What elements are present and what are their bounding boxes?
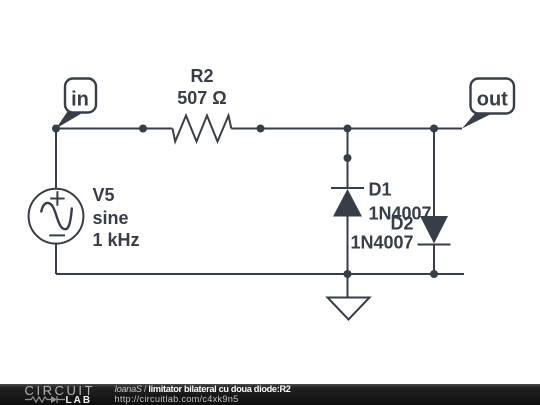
diode D2 triangle (pointing down) xyxy=(420,216,448,244)
svg-text:in: in xyxy=(71,88,89,110)
wire top rail left (node in to resistor) xyxy=(56,128,173,130)
wire D2 branch bottom xyxy=(433,245,435,275)
svg-text:http://circuitlab.com/c4xk9n5: http://circuitlab.com/c4xk9n5 xyxy=(115,394,239,404)
voltage source V5 circle xyxy=(29,189,84,244)
svg-text:out: out xyxy=(477,88,508,110)
wire D1 branch bottom xyxy=(347,217,349,275)
junction node at in xyxy=(52,125,60,133)
V5 plus sign xyxy=(50,191,64,205)
svg-text:507 Ω: 507 Ω xyxy=(177,88,226,108)
flag in pointer xyxy=(56,111,81,129)
junction node resistor left xyxy=(139,125,147,133)
wire D2 branch top xyxy=(433,129,435,217)
svg-text:R2: R2 xyxy=(190,66,213,86)
V5 minus sign xyxy=(49,234,65,236)
ground symbol triangle xyxy=(328,298,370,320)
flag in box xyxy=(65,79,96,113)
flag out pointer xyxy=(462,111,491,129)
wire V5 top lead xyxy=(55,129,57,191)
junction node D1 top xyxy=(344,125,352,133)
wire V5 bottom lead xyxy=(55,243,57,274)
footer logo diode fill xyxy=(51,396,57,403)
junction node D1 bottom xyxy=(344,270,352,278)
wire D1 branch top xyxy=(347,129,349,189)
ground stub xyxy=(347,274,349,298)
svg-text:1 kHz: 1 kHz xyxy=(93,230,140,250)
diode D1 cathode bar xyxy=(331,187,364,189)
V5 sine wave xyxy=(41,203,72,229)
svg-text:D1: D1 xyxy=(369,180,392,200)
junction node D2 top xyxy=(430,125,438,133)
svg-text:LAB: LAB xyxy=(66,395,93,405)
resistor R2 xyxy=(173,116,232,142)
wire top rail right (resistor to out) xyxy=(231,128,462,130)
flag out box xyxy=(471,79,515,114)
svg-text:sine: sine xyxy=(93,208,129,228)
svg-text:1N4007: 1N4007 xyxy=(350,233,413,253)
junction node resistor right xyxy=(257,125,265,133)
wire bottom rail xyxy=(56,273,464,275)
svg-text:D2: D2 xyxy=(390,214,413,234)
diode D1 triangle (pointing up) xyxy=(333,189,362,217)
diode D2 cathode bar xyxy=(418,244,451,246)
junction node D2 bottom xyxy=(430,270,438,278)
footer logo squiggle (wire resistor diode) xyxy=(25,396,65,403)
svg-text:IoanaS / limitator bilateral c: IoanaS / limitator bilateral cu doua dio… xyxy=(115,384,291,394)
svg-text:V5: V5 xyxy=(93,185,115,205)
junction node D1 mid xyxy=(344,154,352,162)
